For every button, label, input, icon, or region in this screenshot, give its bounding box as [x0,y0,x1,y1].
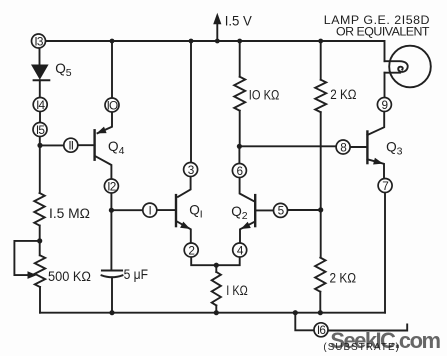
junction dot bus at substrate drop [293,310,298,315]
wire top supply bus [46,41,385,61]
wire base Q4 from junction to node 11 [40,144,64,146]
wire node15 to junction to 1.5M [39,136,41,193]
wire top bus to 2K top [320,41,322,80]
junction dot node15 base wire [37,143,42,148]
svg-text:2 KΩ: 2 KΩ [330,87,356,102]
svg-text:I KΩ: I KΩ [226,283,248,298]
wire junction to node 8 [239,145,336,147]
diode Q5 body [31,65,49,80]
node 6 [232,164,246,178]
wire Q1 collector [178,177,191,197]
wire 1.5M to 500K [39,226,41,256]
node 14 [33,98,47,112]
node 2 [184,243,198,257]
wire node14 to node15 [39,112,41,123]
transistor Q4 bar [93,130,95,159]
junction dot bus at 1K [214,310,219,315]
svg-text:I.5 V: I.5 V [225,14,253,29]
node 5 [274,203,288,217]
node 15 [33,123,47,137]
wire junction to 1K resistor [215,265,217,272]
wire node 4 to 1K junction [216,257,239,265]
node 1 [143,203,157,217]
wire Q4 emitter from node 10 [98,112,113,133]
svg-text:Q2: Q2 [231,204,248,222]
node 7 [378,179,392,193]
potentiometer 500 K ohm [35,255,45,287]
wire 2K bottom to bus [319,292,321,313]
svg-text:2: 2 [188,243,194,257]
svg-text:Q4: Q4 [108,139,125,157]
svg-text:Q3: Q3 [386,140,403,158]
wire node 7 to bottom bus [384,193,386,313]
node 8 [336,140,350,154]
resistor R 2 K ohm lower [315,258,325,292]
junction dot top bus at 2K [318,39,323,44]
wire node 5 to Q2 base [255,209,273,211]
capacitor C 5uF bottom plate [102,275,123,277]
wire top bus to node 3 [190,41,192,163]
capacitor C 5uF top plate [102,270,122,272]
junction dot top bus at supply arrow [215,39,220,44]
svg-text:9: 9 [382,98,388,112]
resistor R 10 K ohm [234,77,245,111]
svg-text:I4: I4 [36,98,45,112]
wire capacitor bottom lead [111,277,113,312]
wire node 1 to Q1 base [157,209,176,211]
svg-text:7: 7 [382,179,388,193]
potentiometer wiper arrow head [28,271,37,279]
wire Q1 emitter to node 2 [178,222,191,243]
wire 10K to junction node6 [239,111,241,147]
transistor Q4 emitter arrow [97,127,107,134]
supply arrow head [213,13,221,24]
wire node 11 to Q4 base [78,144,95,146]
svg-text:5 μF: 5 μF [124,267,148,282]
wire Q2 collector [240,178,254,202]
node 3 [184,163,198,177]
wire 500K to bottom bus [39,287,41,313]
transistor Q1 bar [175,195,177,226]
lamp filament [385,61,408,72]
wire Q3 collector to node 9 [367,112,384,136]
wire node 5 to 2K junction [288,209,321,211]
transistor Q2 emitter arrow [241,222,251,229]
junction dot 10K node6 [237,144,242,149]
junction dot node12 base wire [109,208,114,213]
wire junction to node 6 [238,146,240,163]
junction dot top bus at node10 line [110,39,115,44]
node 9 [377,98,391,112]
lamp bulb circle [389,46,431,88]
junction dot node5 2K [318,207,323,212]
wire capacitor top lead [110,210,112,270]
node 10 [105,98,119,112]
svg-text:I6: I6 [317,323,326,337]
wire node 12 to junction [110,193,112,210]
transistor Q1 emitter arrow [180,222,190,229]
wire Q2 emitter to node 4 [240,222,254,243]
svg-text:2 KΩ: 2 KΩ [330,271,357,286]
wire top bus to node 10 [111,41,113,98]
svg-text:I2: I2 [107,179,115,193]
resistor R 1.5 M ohm [34,193,44,226]
wire node 16 to right stub [328,325,407,331]
junction dot bus at capacitor [109,310,114,315]
transistor Q2 bar [254,195,256,226]
junction dot top bus at node3 line [189,39,194,44]
junction dot 1K top [214,263,219,268]
svg-text:QI: QI [189,203,203,221]
transistor Q3 emitter arrow [373,158,383,165]
wire 1K to bottom bus [215,305,217,312]
wire 2K top to node5 junction to 2K bottom [320,112,322,257]
wire Q3 emitter to node 7 [367,159,384,178]
wire top bus to 10K [239,41,241,77]
node 13 [32,34,46,48]
junction dot pot top [37,238,42,243]
wire diode to node 14 [39,80,41,97]
wire bottom ground bus [40,312,385,314]
svg-text:OR EQUIVALENT: OR EQUIVALENT [336,24,430,38]
svg-text:I3: I3 [34,34,43,48]
wire node 9 to lamp [384,73,386,98]
svg-text:IO KΩ: IO KΩ [249,88,279,103]
node 12 [104,179,118,193]
diode Q5 cathode bar [33,79,51,81]
svg-text:Q5: Q5 [55,61,72,79]
node 11 [64,138,78,152]
junction dot bus at 2K bottom [318,310,323,315]
svg-text:500 KΩ: 500 KΩ [48,269,91,284]
svg-text:IO: IO [107,98,118,112]
resistor R 2 K ohm upper [315,80,326,113]
wire supply arrow stem [216,24,218,42]
wire node 2 to 1K junction [191,257,216,265]
junction dot top bus at 10K [237,39,242,44]
svg-text:II: II [68,139,73,153]
svg-text:I5: I5 [36,123,45,137]
wire Q4 collector to node 12 [95,156,112,179]
svg-text:I.5 MΩ: I.5 MΩ [49,206,90,221]
transistor Q3 bar [366,132,368,164]
wire substrate drop to node 16 [295,313,314,331]
wire node 8 to Q3 base [350,146,368,148]
wire junction to node 1 [111,209,142,211]
node 16 [314,323,328,337]
resistor R 1 K ohm [212,272,221,306]
svg-text:SeekIC.com: SeekIC.com [330,328,441,353]
wire pot wiper loop [14,241,39,275]
node 4 [233,243,247,257]
wire left column node13 to diode [39,48,41,65]
